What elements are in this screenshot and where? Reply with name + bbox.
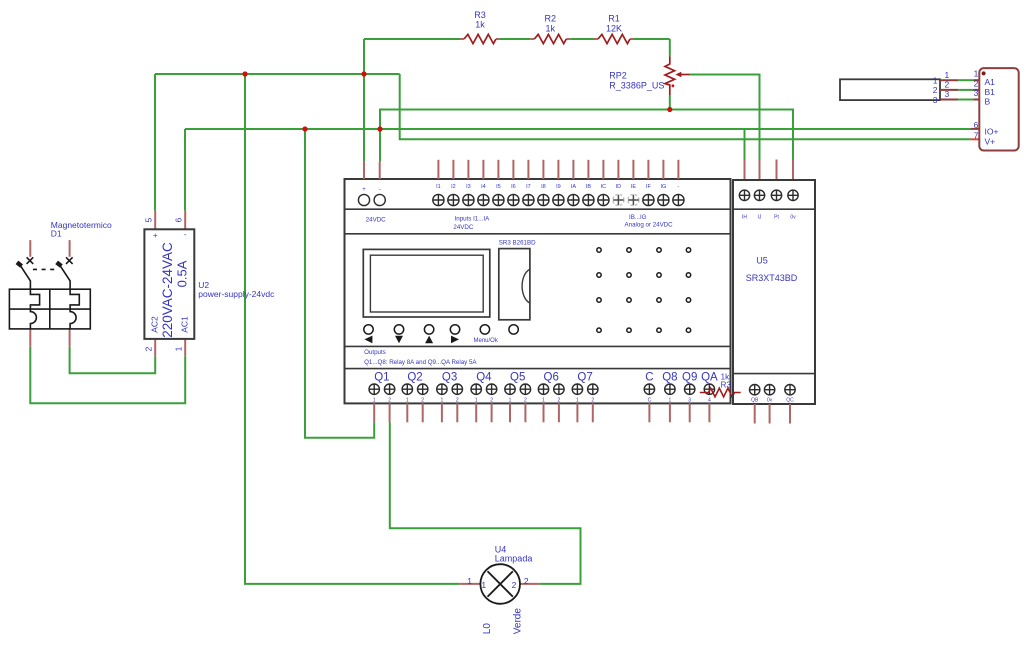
PLC pin I6: [512, 160, 514, 179]
svg-text:+: +: [362, 187, 366, 193]
svg-text:0v: 0v: [767, 398, 773, 404]
svg-text:IG: IG: [660, 184, 666, 190]
PLC pin IB: [587, 160, 589, 179]
svg-text:R1: R1: [608, 14, 620, 24]
wire to R3: [364, 38, 460, 40]
U5 pin Pt: [776, 160, 778, 181]
svg-text:Menu/Ok: Menu/Ok: [474, 338, 499, 344]
svg-text:Q5: Q5: [510, 371, 525, 383]
svg-text:2: 2: [490, 398, 493, 404]
PLC pin Q7-2: [592, 403, 594, 422]
junction 0V/Q1-1: [302, 126, 307, 131]
svg-text:I8: I8: [541, 184, 546, 190]
PLC pin C: [648, 403, 650, 422]
connector J pin 1 stub: [974, 79, 980, 81]
svg-text:220VAC-24VAC: 220VAC-24VAC: [160, 242, 175, 338]
PLC terminal ID: [613, 194, 624, 205]
svg-text:B: B: [985, 97, 991, 107]
svg-text:1k: 1k: [546, 24, 556, 34]
PLC pin Q6-1: [543, 403, 545, 422]
svg-text:Q2: Q2: [407, 371, 422, 383]
wire RP2 wiper to U5 IJ: [690, 75, 760, 160]
U5 pin 0v: [792, 160, 794, 181]
PLC pin I5: [497, 160, 499, 179]
svg-text:1k: 1k: [475, 20, 485, 30]
PLC pin Q2-1: [406, 403, 408, 422]
wire up to R chain: [363, 39, 365, 74]
svg-text:1: 1: [467, 576, 472, 586]
svg-text:IE: IE: [631, 184, 637, 190]
svg-text:1: 1: [933, 75, 938, 85]
wire 0V to U5 IH: [744, 129, 746, 160]
PLC pin IA: [572, 160, 574, 179]
wire 0V to Q1-1: [305, 129, 374, 438]
svg-text:SR3XT43BD: SR3XT43BD: [746, 273, 798, 283]
svg-text:V+: V+: [985, 136, 996, 146]
breaker D1 body: [9, 257, 90, 329]
lamp U4 body: [480, 564, 520, 604]
svg-text:QC: QC: [786, 398, 794, 404]
U5 terminal Pt: [771, 190, 781, 200]
svg-text:power-supply-24vdc: power-supply-24vdc: [198, 289, 275, 299]
PLC terminal I7: [523, 194, 534, 205]
PLC pin I9: [557, 160, 559, 179]
svg-text:QA: QA: [701, 371, 718, 383]
breaker D1 pin bottom-left: [29, 329, 31, 347]
svg-text:I7: I7: [526, 184, 531, 190]
junction +24V/lamp: [242, 71, 247, 76]
svg-text:2: 2: [456, 398, 459, 404]
svg-text:I3: I3: [466, 184, 471, 190]
svg-text:2: 2: [945, 80, 950, 90]
PLC pin I3: [467, 160, 469, 179]
svg-text:R3: R3: [721, 381, 732, 390]
svg-text:Q7: Q7: [577, 371, 592, 383]
wire R1 to RP2: [634, 38, 670, 40]
wire to PLC +: [363, 74, 365, 162]
PLC pin Q5-1: [509, 403, 511, 422]
wire conn pin2: [958, 89, 973, 91]
resistor R3 (1k at QA): [700, 388, 741, 397]
PLC pin Q3-2: [456, 403, 458, 422]
svg-text:Verde: Verde: [512, 608, 523, 635]
PLC pin Q6-2: [558, 403, 560, 422]
PLC pin IF: [647, 160, 649, 179]
PLC LCD screen: [363, 249, 490, 317]
svg-text:R_3386P_US: R_3386P_US: [609, 80, 664, 90]
PS U2 pin 6 (-): [184, 211, 186, 230]
resistor R3: [460, 38, 500, 40]
svg-text:24VDC: 24VDC: [366, 217, 386, 224]
plug pin 2: [940, 89, 958, 91]
svg-text:1: 1: [373, 398, 376, 404]
svg-text:Q3: Q3: [442, 371, 457, 383]
svg-text:1: 1: [974, 69, 979, 79]
svg-text:6: 6: [174, 218, 184, 223]
wire 0V to U5 0v: [380, 110, 793, 160]
junction RP2 bottom/0V: [667, 107, 672, 112]
resistor R1: [594, 38, 634, 40]
lamp U4 pin 2: [520, 583, 540, 585]
svg-text:5: 5: [144, 218, 154, 223]
breaker D1 pin bottom-right: [69, 329, 71, 347]
PLC body SR3 B261BD: [345, 179, 731, 403]
svg-text:IA: IA: [571, 184, 577, 190]
svg-text:Pt: Pt: [774, 215, 779, 221]
svg-text:R3: R3: [474, 10, 486, 20]
PLC terminal I5: [493, 194, 504, 205]
PS U2 pin 1 (AC1): [184, 339, 186, 356]
wire conn pin1: [958, 79, 973, 81]
svg-text:IB: IB: [586, 184, 592, 190]
PLC pin IG: [662, 160, 664, 179]
PLC terminal IC: [598, 194, 609, 205]
wire 0V bus: [185, 128, 971, 130]
svg-text:1: 1: [669, 398, 672, 404]
PS U2 pin 5 (+): [154, 211, 156, 230]
svg-text:1: 1: [406, 398, 409, 404]
PLC buttons: [364, 325, 519, 334]
wire breaker L to PS AC1: [30, 347, 185, 404]
svg-text:-: -: [677, 184, 679, 190]
svg-text:1: 1: [481, 580, 486, 590]
U5 terminal IH: [739, 190, 749, 200]
svg-text:1: 1: [542, 398, 545, 404]
svg-text:24VDC: 24VDC: [453, 224, 473, 231]
PLC pin I1: [437, 160, 439, 179]
PS U2 pin 2 (AC2): [154, 339, 156, 356]
svg-text:Inputs I1...IA: Inputs I1...IA: [455, 216, 491, 223]
svg-text:ID: ID: [616, 184, 622, 190]
connector J pin 2 stub: [974, 89, 980, 91]
svg-text:IH: IH: [742, 215, 747, 221]
svg-text:Q1: Q1: [374, 371, 389, 383]
PLC terminal -: [673, 194, 684, 205]
PLC terminal I8: [538, 194, 549, 205]
connector J pin 3 stub: [974, 99, 980, 101]
svg-text:0.5A: 0.5A: [175, 260, 190, 287]
PLC pin Q8: [669, 403, 671, 422]
PLC terminal I4: [478, 194, 489, 205]
svg-text:+: +: [153, 231, 158, 240]
PLC pin Q4-1: [475, 403, 477, 422]
connector J1 body: [979, 68, 1018, 150]
plug pin 1: [940, 79, 958, 81]
svg-text:Q1...Q8: Relay 8A and Q9...QA: Q1...Q8: Relay 8A and Q9...QA Relay 5A: [364, 359, 477, 366]
wire R2-R1: [570, 38, 594, 40]
svg-text:1: 1: [509, 398, 512, 404]
svg-text:L0: L0: [482, 623, 493, 635]
svg-text:I5: I5: [496, 184, 501, 190]
connector J pin 6 stub: [971, 128, 980, 130]
svg-text:Q9: Q9: [682, 371, 697, 383]
wire RP2 bottom: [669, 95, 671, 110]
PLC pin -: [677, 160, 679, 179]
svg-text:RP2: RP2: [609, 71, 627, 81]
lamp U4 pin 1: [460, 583, 481, 585]
svg-text:12K: 12K: [606, 24, 622, 34]
PLC terminal I6: [508, 194, 519, 205]
wire +24V to V+: [400, 74, 971, 139]
PLC terminal I2: [448, 194, 459, 205]
svg-text:IC: IC: [601, 184, 607, 190]
PLC pin + (24VDC): [363, 162, 365, 179]
svg-text:2: 2: [144, 346, 154, 351]
svg-text:IJ: IJ: [758, 215, 762, 221]
PLC pin Q2-2: [422, 403, 424, 422]
potentiometer RP2: [665, 56, 690, 95]
svg-text:A1: A1: [985, 77, 996, 87]
PLC pin Q9: [689, 403, 691, 422]
svg-text:Lampada: Lampada: [495, 554, 533, 564]
svg-text:AC2: AC2: [150, 316, 160, 333]
U5 terminal 0v: [788, 190, 798, 200]
U5 body SR3XT43BD: [733, 180, 815, 404]
svg-text:2: 2: [421, 398, 424, 404]
svg-text:R2: R2: [545, 14, 557, 24]
wire PS+ up: [154, 74, 156, 211]
PLC pin Q3-1: [441, 403, 443, 422]
svg-text:1: 1: [174, 346, 184, 351]
svg-text:2: 2: [974, 78, 979, 88]
connector J pin 7 stub: [971, 138, 980, 140]
U5 pin QB: [754, 404, 756, 424]
wire conn pin3: [958, 99, 973, 101]
svg-text:C: C: [645, 371, 653, 383]
svg-text:2: 2: [558, 398, 561, 404]
svg-text:2: 2: [524, 398, 527, 404]
U5 terminal QC: [785, 385, 795, 395]
wire +24V to lamp pin1: [245, 74, 460, 584]
svg-text:IF: IF: [646, 184, 652, 190]
wire down to RP2 top: [669, 39, 671, 56]
svg-text:QB: QB: [751, 398, 759, 404]
PLC pin Q1-2: [389, 403, 391, 422]
svg-text:2: 2: [524, 576, 529, 586]
PLC pin Q4-2: [491, 403, 493, 422]
connector housing (plug): [840, 79, 940, 100]
wire breaker R to PS AC2: [70, 347, 156, 374]
PLC terminal IF: [643, 194, 654, 205]
svg-text:3: 3: [974, 88, 979, 98]
PLC terminal +: [358, 194, 369, 205]
PLC terminal I1: [433, 194, 444, 205]
svg-text:6: 6: [974, 120, 979, 130]
PLC pin - (24VDC): [379, 162, 381, 179]
wire Q1-2 to lamp pin2: [390, 422, 581, 584]
PLC terminal -: [374, 194, 385, 205]
PLC terminal IE: [628, 194, 639, 205]
PLC pin Q5-2: [524, 403, 526, 422]
svg-text:I6: I6: [511, 184, 516, 190]
power supply U2 body: [144, 229, 194, 339]
resistor R2: [530, 38, 570, 40]
svg-text:-: -: [379, 187, 381, 193]
svg-text:AC1: AC1: [180, 316, 190, 333]
svg-text:I4: I4: [481, 184, 486, 190]
PLC pin Q1-1: [373, 403, 375, 422]
PLC indicator grid: [597, 248, 691, 333]
PLC pin ID: [617, 160, 619, 179]
PLC pin Q7-1: [576, 403, 578, 422]
svg-text:Analog or 24VDC: Analog or 24VDC: [625, 222, 674, 229]
svg-text:4: 4: [708, 398, 711, 404]
PLC terminal IG: [658, 194, 669, 205]
svg-text:2: 2: [512, 580, 517, 590]
U5 pin QC: [789, 404, 791, 424]
svg-text:3: 3: [933, 95, 938, 105]
svg-text:U5: U5: [756, 256, 768, 266]
svg-text:1: 1: [945, 70, 950, 80]
PLC pin IE: [632, 160, 634, 179]
PLC pin QA: [708, 403, 710, 422]
svg-text:D1: D1: [51, 229, 62, 239]
U5 terminal IJ: [754, 190, 764, 200]
breaker D1 pin top-left: [29, 240, 31, 257]
U5 pin IJ: [759, 160, 761, 181]
svg-text:2: 2: [591, 398, 594, 404]
svg-text:Q8: Q8: [662, 371, 677, 383]
U5 terminal 0v: [764, 385, 774, 395]
svg-text:7: 7: [974, 130, 979, 140]
svg-text:0v: 0v: [790, 215, 796, 221]
PLC memory cartridge: [499, 249, 530, 320]
U5 terminal QB: [750, 385, 760, 395]
svg-text:IB...IG: IB...IG: [629, 214, 647, 221]
breaker hinge contacts: [16, 261, 23, 268]
PLC terminal IB: [583, 194, 594, 205]
svg-text:2: 2: [388, 398, 391, 404]
svg-text:Q4: Q4: [476, 371, 492, 383]
PLC pin IC: [602, 160, 604, 179]
PLC pin I2: [452, 160, 454, 179]
breaker D1 pin top-right: [69, 240, 71, 257]
svg-text:I9: I9: [556, 184, 561, 190]
svg-text:3: 3: [945, 89, 950, 99]
wire PS- up: [184, 129, 186, 211]
wire R3-R2: [500, 38, 530, 40]
wire +24V bus top: [155, 73, 400, 75]
PLC terminal IA: [568, 194, 579, 205]
svg-text:3: 3: [688, 398, 691, 404]
junction +24V/R-chain: [361, 71, 366, 76]
U5 pin 0v: [769, 404, 771, 424]
PLC button arrows: [364, 336, 459, 344]
junction 0V/PLC-: [377, 126, 382, 131]
svg-text:B1: B1: [985, 87, 996, 97]
PLC terminal I3: [463, 194, 474, 205]
svg-text:SR3 B261BD: SR3 B261BD: [499, 240, 536, 247]
svg-text:2: 2: [933, 85, 938, 95]
wire to PLC -: [379, 129, 381, 162]
svg-text:Outputs: Outputs: [364, 349, 386, 356]
svg-text:IO+: IO+: [985, 127, 999, 137]
PLC pin I8: [542, 160, 544, 179]
plug pin 3: [940, 99, 958, 101]
svg-text:Q6: Q6: [544, 371, 559, 383]
svg-text:I1: I1: [436, 184, 441, 190]
svg-text:1: 1: [576, 398, 579, 404]
svg-text:-: -: [184, 230, 187, 239]
svg-text:1: 1: [475, 398, 478, 404]
PLC pin I4: [482, 160, 484, 179]
svg-text:1: 1: [441, 398, 444, 404]
PLC pin I7: [527, 160, 529, 179]
svg-text:I2: I2: [451, 184, 456, 190]
PLC terminal I9: [553, 194, 564, 205]
U5 pin IH: [744, 160, 746, 181]
svg-text:C: C: [648, 398, 652, 404]
